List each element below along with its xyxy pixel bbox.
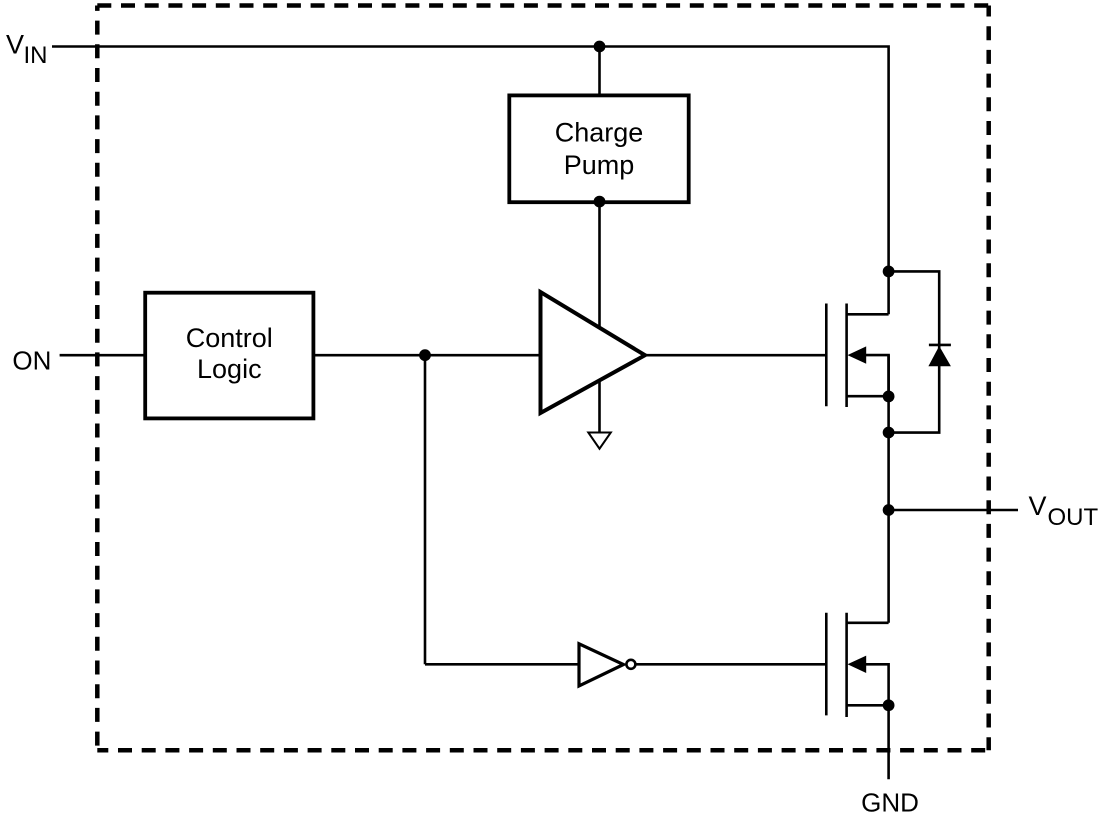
svg-text:OUT: OUT bbox=[1048, 504, 1099, 531]
svg-text:Charge: Charge bbox=[555, 118, 644, 148]
svg-text:Logic: Logic bbox=[197, 354, 262, 384]
svg-text:Control: Control bbox=[186, 323, 273, 353]
svg-text:IN: IN bbox=[24, 42, 48, 69]
svg-text:V: V bbox=[1029, 491, 1047, 521]
svg-text:ON: ON bbox=[12, 345, 51, 375]
svg-text:V: V bbox=[6, 30, 24, 60]
svg-text:GND: GND bbox=[861, 787, 919, 815]
svg-text:Pump: Pump bbox=[564, 150, 635, 180]
